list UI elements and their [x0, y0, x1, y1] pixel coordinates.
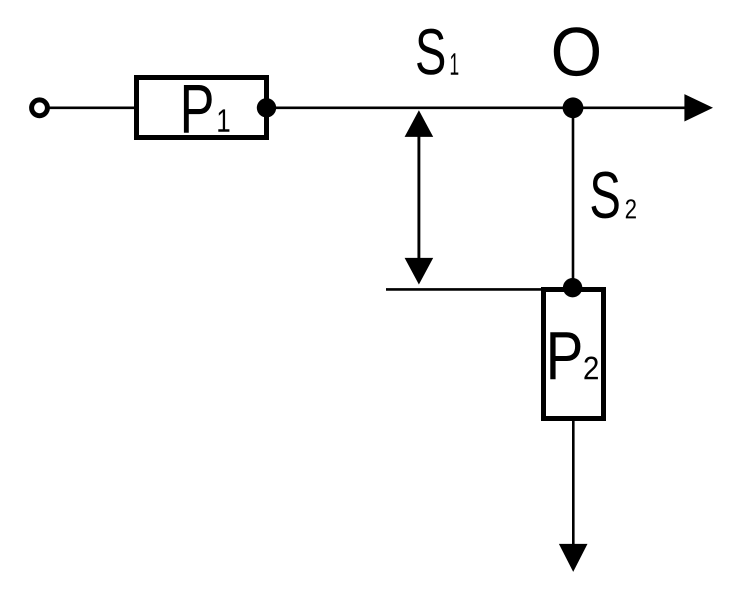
label P2 — [550, 332, 598, 379]
output arrowhead (down) — [559, 544, 588, 572]
label P1 — [184, 85, 229, 133]
component box P1 — [137, 78, 267, 138]
reference line to P2 — [386, 288, 544, 291]
wire: P1 to output arrow — [267, 107, 687, 110]
wire: node O down to P2 — [572, 108, 575, 288]
wire: terminal to P1 — [48, 107, 137, 110]
junction dot at P2 input — [563, 278, 582, 297]
wire: P2 to output arrow (down) — [572, 419, 575, 546]
label S2 — [591, 172, 635, 219]
junction dot at P1 output — [257, 98, 276, 117]
output arrowhead (right) — [684, 94, 713, 121]
component box P2 — [544, 290, 604, 419]
double-headed arrow (span S1) — [405, 110, 434, 284]
node O junction dot — [563, 97, 584, 118]
label S1 — [417, 29, 458, 75]
input terminal (open circle) — [32, 100, 48, 116]
label O — [554, 27, 599, 76]
